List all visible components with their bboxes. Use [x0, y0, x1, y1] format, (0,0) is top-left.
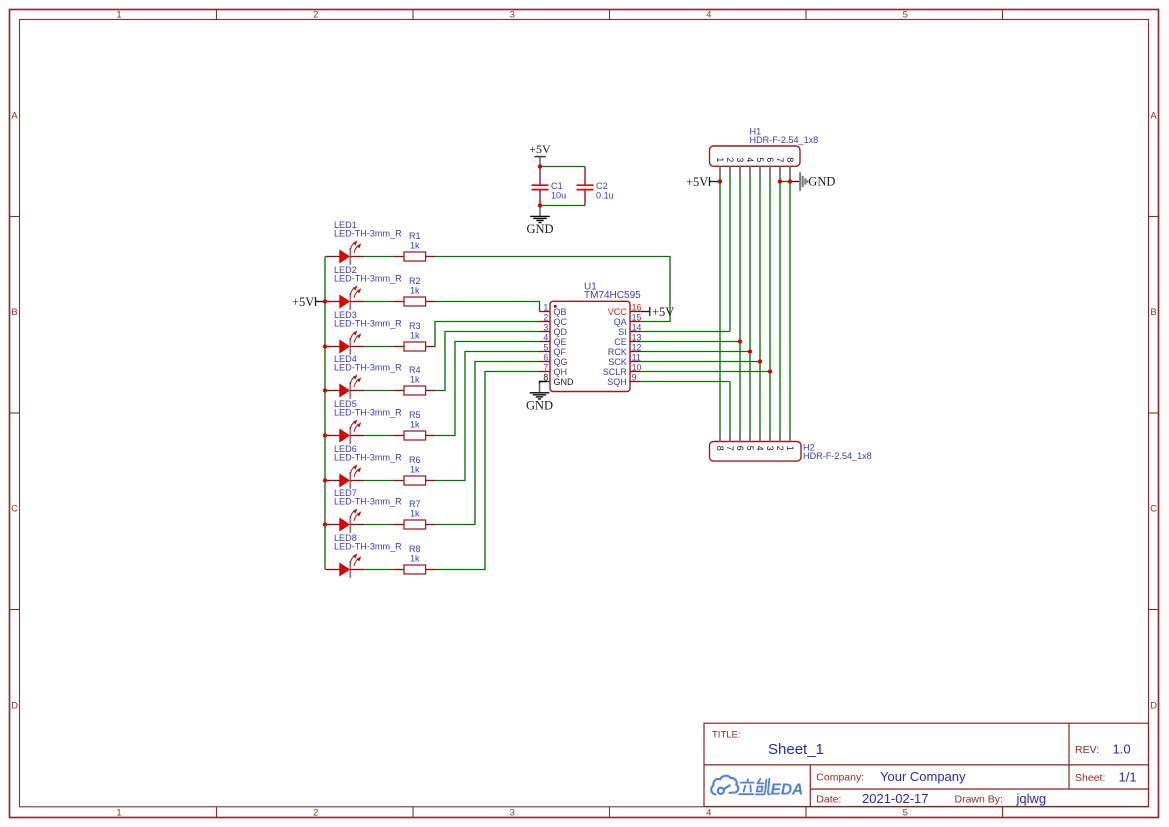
svg-text:QA: QA	[614, 317, 627, 327]
junction RCK column	[748, 349, 752, 353]
svg-text:SQH: SQH	[607, 377, 627, 387]
resistor R6 1k	[394, 476, 436, 485]
svg-text:LED-TH-3mm_R: LED-TH-3mm_R	[334, 408, 402, 418]
svg-text:LED-TH-3mm_R: LED-TH-3mm_R	[334, 453, 402, 463]
wire net RCK to column x750	[641, 351, 751, 353]
svg-text:QF: QF	[554, 347, 567, 357]
wire net R8 out to U1 pin7	[436, 372, 540, 570]
connector H1 HDR-F-2.54_1x8 body	[710, 146, 801, 166]
U1 pin1 orientation dot	[554, 305, 557, 308]
netport GND at H1 (sideways ground)	[800, 172, 807, 191]
H1 pin 1 stub	[719, 166, 721, 177]
title block divider under company row	[810, 788, 1148, 790]
svg-text:1k: 1k	[410, 465, 420, 475]
H2 pin 5 stub	[749, 432, 751, 441]
svg-text:REV:: REV:	[1075, 744, 1099, 756]
ground symbol below C1	[530, 216, 550, 222]
svg-text:6: 6	[543, 353, 548, 363]
svg-text:1k: 1k	[410, 286, 420, 296]
svg-text:6: 6	[765, 157, 775, 162]
H1 pin 2 stub	[729, 166, 731, 177]
svg-text:5: 5	[903, 10, 908, 21]
svg-text:Drawn By:: Drawn By:	[955, 794, 1003, 806]
svg-text:D: D	[11, 700, 18, 711]
svg-text:1k: 1k	[410, 554, 420, 564]
wire +5V net: C1 top to C2 top	[540, 166, 585, 168]
wire net R5 out to U1 pin4	[436, 342, 540, 436]
svg-text:SI: SI	[618, 327, 627, 337]
row tick 3 left	[10, 609, 20, 611]
wire column x790 (H1.8 to H2.1)	[789, 177, 791, 433]
svg-text:A: A	[1150, 110, 1157, 121]
svg-text:4: 4	[745, 157, 755, 162]
svg-text:4: 4	[755, 446, 765, 451]
svg-text:C: C	[1150, 504, 1157, 515]
H1 pin 5 stub	[759, 166, 761, 177]
wire column x780 (H1.7 to H2.2)	[779, 177, 781, 433]
logo text 立创 (glyph strokes)	[739, 779, 770, 795]
wire +5V port to H1 pin1 column	[710, 181, 720, 183]
svg-text:7: 7	[543, 363, 548, 373]
svg-text:1k: 1k	[410, 241, 420, 251]
H2 pin 3 stub	[769, 432, 771, 441]
U1 pin 12 stub	[630, 351, 641, 353]
wire column x740 (H1.3 to H2.6)	[739, 177, 741, 433]
LED LED3 (LED-TH-3mm_R)	[325, 331, 364, 355]
svg-text:D: D	[1150, 700, 1157, 711]
junction GND at H1 pin7	[778, 179, 782, 183]
wire net SCK to column x760	[641, 361, 761, 363]
junction +5V bus at LED4 row	[323, 388, 327, 392]
H1 pin 8 stub	[789, 166, 791, 177]
svg-text:1k: 1k	[410, 420, 420, 430]
junction +5V bus at LED6 row	[323, 478, 327, 482]
ground symbol below U1	[530, 393, 550, 399]
resistor R7 1k	[394, 520, 436, 529]
svg-text:7: 7	[775, 157, 785, 162]
svg-text:5: 5	[755, 157, 765, 162]
svg-text:QC: QC	[554, 317, 568, 327]
U1 pin 11 stub	[630, 361, 641, 363]
resistor R5 1k	[394, 431, 436, 440]
svg-text:4: 4	[706, 10, 711, 21]
svg-text:1: 1	[785, 446, 795, 451]
junction CE column	[738, 339, 742, 343]
wire net SQH to column x730	[641, 381, 731, 383]
column tick 5 top	[1002, 10, 1004, 20]
H2 pin 7 stub	[729, 432, 731, 441]
svg-text:16: 16	[632, 303, 642, 313]
junction GND at H1 pin8	[788, 179, 792, 183]
svg-text:TITLE:: TITLE:	[712, 730, 741, 741]
wire net R1 out to U1 pin15 QA	[436, 257, 670, 322]
title block divider under title row	[704, 764, 1149, 766]
LED LED2 (LED-TH-3mm_R)	[325, 286, 364, 310]
row tick 2 left	[10, 412, 20, 414]
H2 pin 8 stub	[719, 432, 721, 441]
svg-text:2: 2	[725, 157, 735, 162]
wire +5V bus vertical (LED anodes)	[324, 257, 326, 570]
svg-text:4: 4	[706, 808, 711, 819]
svg-text:1/1: 1/1	[1119, 769, 1137, 784]
op IC U1 TM74HC595 body	[550, 301, 630, 391]
wire LED8 cathode to R8	[364, 569, 394, 571]
U1 pin 6 stub	[540, 361, 551, 363]
wire column x730 lower (SQH-H2.7)	[729, 382, 731, 433]
svg-text:1k: 1k	[410, 331, 420, 341]
netport +5V at H1 pin1	[686, 175, 710, 189]
svg-text:QD: QD	[554, 327, 568, 337]
junction +5V bus at LED3 row	[323, 344, 327, 348]
svg-text:C: C	[11, 504, 18, 515]
svg-text:CE: CE	[614, 337, 627, 347]
svg-text:15: 15	[632, 313, 642, 323]
svg-text:3: 3	[543, 323, 548, 333]
U1 pin 10 stub	[630, 371, 641, 373]
svg-text:1k: 1k	[410, 375, 420, 385]
svg-text:1: 1	[116, 10, 121, 21]
wire LED2 cathode to R2	[364, 301, 394, 303]
wire column x720 (H1.1 to H2.8)	[719, 177, 721, 433]
svg-text:1: 1	[543, 303, 548, 313]
svg-text:2: 2	[543, 313, 548, 323]
U1 pin 3 stub	[540, 331, 551, 333]
svg-text:3: 3	[510, 808, 515, 819]
junction +5V bus at LED2 row	[323, 299, 327, 303]
wire net R4 out to U1 pin3	[436, 332, 540, 391]
svg-text:jqlwg: jqlwg	[1016, 791, 1047, 806]
netport +5V feeding LED bus	[292, 295, 316, 309]
resistor R8 1k	[394, 565, 436, 574]
svg-text:1k: 1k	[410, 509, 420, 519]
svg-text:LED-TH-3mm_R: LED-TH-3mm_R	[334, 363, 402, 373]
column tick 1 top	[216, 10, 218, 20]
resistor R4 1k	[394, 386, 436, 395]
svg-text:SCK: SCK	[608, 357, 627, 367]
wire net R3 out to U1 pin2	[435, 322, 540, 347]
wire LED4 cathode to R4	[364, 390, 394, 392]
wire U1 GND pin to ground	[540, 382, 548, 385]
wire net R2 out to U1 pin1 QB	[436, 302, 540, 312]
svg-text:HDR-F-2.54_1x8: HDR-F-2.54_1x8	[750, 135, 819, 145]
connector H2 HDR-F-2.54_1x8 body	[710, 442, 802, 462]
svg-text:10: 10	[632, 363, 642, 373]
LED LED6 (LED-TH-3mm_R)	[325, 465, 364, 489]
H2 pin 1 stub	[789, 432, 791, 441]
wire column x730 upper (H1.2-SI)	[729, 177, 731, 332]
LED LED1 (LED-TH-3mm_R)	[325, 241, 364, 265]
U1 pin 4 stub	[540, 341, 551, 343]
wire LED5 cathode to R5	[364, 435, 394, 437]
svg-text:QG: QG	[554, 357, 568, 367]
power flag +5V (top)	[529, 142, 551, 166]
wire column x760 (H1.5 to H2.4)	[759, 177, 761, 433]
svg-text:7: 7	[725, 446, 735, 451]
row tick 1 left	[10, 216, 20, 218]
wire LED6 cathode to R6	[364, 480, 394, 482]
svg-text:8: 8	[715, 446, 725, 451]
svg-text:QB: QB	[554, 307, 567, 317]
netport +5V at U1 VCC	[650, 305, 675, 319]
svg-text:13: 13	[632, 333, 642, 343]
svg-text:GND: GND	[526, 399, 553, 413]
svg-text:LED-TH-3mm_R: LED-TH-3mm_R	[334, 229, 402, 239]
svg-text:GND: GND	[526, 222, 553, 236]
H1 pin 4 stub	[749, 166, 751, 177]
svg-text:+5V: +5V	[686, 175, 708, 189]
wire column x750 (H1.4 to H2.5)	[749, 177, 751, 433]
svg-text:2021-02-17: 2021-02-17	[862, 791, 929, 806]
svg-text:EDA: EDA	[771, 782, 804, 799]
wire U1 VCC to +5V port	[641, 311, 650, 313]
svg-text:SCLR: SCLR	[603, 367, 628, 377]
svg-text:3: 3	[510, 10, 515, 21]
U1 pin 7 stub	[540, 371, 551, 373]
resistor R2 1k	[394, 297, 436, 306]
title block frame	[704, 723, 1149, 806]
wire net SI to column x730	[641, 331, 731, 333]
svg-text:9: 9	[632, 373, 637, 383]
column tick 4 top	[805, 10, 807, 20]
svg-text:+5V: +5V	[529, 142, 551, 156]
junction SCK column	[758, 359, 762, 363]
svg-text:5: 5	[903, 808, 908, 819]
svg-text:Sheet:: Sheet:	[1075, 772, 1105, 784]
svg-text:LED-TH-3mm_R: LED-TH-3mm_R	[334, 542, 402, 552]
LED LED7 (LED-TH-3mm_R)	[325, 509, 364, 533]
column tick 3 top	[609, 10, 611, 20]
svg-text:GND: GND	[554, 377, 575, 387]
svg-text:LED-TH-3mm_R: LED-TH-3mm_R	[334, 319, 402, 329]
wire GND stem below C1	[539, 206, 541, 217]
svg-text:3: 3	[735, 157, 745, 162]
title block logo cell divider	[809, 765, 811, 807]
svg-text:14: 14	[632, 323, 642, 333]
U1 pin 9 stub	[630, 381, 641, 383]
svg-text:2: 2	[775, 446, 785, 451]
svg-text:5: 5	[543, 343, 548, 353]
wire net R6 out to U1 pin5	[436, 352, 540, 481]
column tick 4 bottom	[805, 807, 807, 818]
U1 pin 1 stub	[540, 311, 551, 313]
svg-text:1: 1	[715, 157, 725, 162]
svg-text:2: 2	[313, 10, 318, 21]
svg-text:GND: GND	[808, 175, 835, 189]
svg-text:8: 8	[785, 157, 795, 162]
wire LED3 cathode to R3	[364, 346, 394, 348]
H1 pin 6 stub	[769, 166, 771, 177]
logo LCEDA cloud icon	[711, 776, 738, 795]
svg-text:Date:: Date:	[816, 794, 841, 806]
svg-text:RCK: RCK	[608, 347, 627, 357]
column tick 1 bottom	[216, 807, 218, 818]
junction +5V at H1 pin1	[718, 179, 722, 183]
svg-text:2: 2	[313, 808, 318, 819]
wire net R7 out to U1 pin6	[436, 362, 540, 525]
column tick 3 bottom	[609, 807, 611, 818]
svg-text:LED-TH-3mm_R: LED-TH-3mm_R	[334, 274, 402, 284]
svg-text:4: 4	[543, 333, 548, 343]
LED LED4 (LED-TH-3mm_R)	[325, 375, 364, 399]
H2 pin 6 stub	[739, 432, 741, 441]
svg-text:+5V: +5V	[292, 295, 314, 309]
U1 pin 8 stub	[540, 381, 551, 383]
wire H1 pin8 to GND port	[790, 181, 799, 183]
svg-text:12: 12	[632, 343, 642, 353]
U1 pin 5 stub	[540, 351, 551, 353]
svg-text:1: 1	[116, 808, 121, 819]
svg-text:TM74HC595: TM74HC595	[584, 290, 641, 301]
wire LED1 cathode to R1	[364, 256, 394, 258]
H1 pin 7 stub	[779, 166, 781, 177]
capacitor C1 10u	[532, 167, 549, 206]
U1 pin 13 stub	[630, 341, 641, 343]
wire net CE to column x740	[641, 341, 741, 343]
svg-text:A: A	[11, 110, 18, 121]
svg-text:B: B	[11, 307, 17, 318]
capacitor C2 0.1u	[577, 167, 594, 206]
svg-text:Company:: Company:	[816, 772, 864, 784]
wire LED7 cathode to R7	[364, 524, 394, 526]
svg-text:VCC: VCC	[608, 307, 628, 317]
svg-text:Sheet_1: Sheet_1	[768, 741, 824, 758]
row tick 3 right	[1149, 609, 1159, 611]
H1 pin 3 stub	[739, 166, 741, 177]
svg-text:5: 5	[745, 446, 755, 451]
column tick 5 bottom	[1002, 807, 1004, 818]
wire GND link H1 pin7 to pin8	[780, 181, 790, 183]
svg-text:6: 6	[735, 446, 745, 451]
resistor R1 1k	[394, 252, 436, 261]
junction GND at C1 bottom	[538, 203, 542, 207]
svg-text:1.0: 1.0	[1113, 741, 1131, 756]
svg-text:0.1u: 0.1u	[596, 190, 614, 200]
svg-text:11: 11	[632, 353, 641, 363]
junction +5V at C1 top	[538, 164, 542, 168]
svg-text:LED-TH-3mm_R: LED-TH-3mm_R	[334, 497, 402, 507]
svg-text:3: 3	[765, 446, 775, 451]
svg-text:QH: QH	[554, 367, 568, 377]
U1 pin 14 stub	[630, 331, 641, 333]
svg-text:HDR-F-2.54_1x8: HDR-F-2.54_1x8	[803, 451, 872, 461]
H2 pin 4 stub	[759, 432, 761, 441]
wire GND net: C1 bottom to C2 bottom	[540, 205, 585, 207]
row tick 1 right	[1149, 216, 1159, 218]
title block rev column divider	[1068, 723, 1070, 789]
U1 pin 16 stub	[630, 311, 641, 313]
wire +5V port to bus	[316, 301, 325, 303]
svg-text:10u: 10u	[551, 190, 566, 200]
junction +5V bus at LED7 row	[323, 522, 327, 526]
LED LED8 (LED-TH-3mm_R)	[325, 554, 364, 578]
wire column x770 (H1.6 to H2.3)	[769, 177, 771, 433]
resistor R3 1k	[394, 342, 436, 351]
svg-text:QE: QE	[554, 337, 567, 347]
U1 pin 2 stub	[540, 321, 551, 323]
svg-text:+5V: +5V	[652, 305, 674, 319]
column tick 2 bottom	[412, 807, 414, 818]
H2 pin 2 stub	[779, 432, 781, 441]
row tick 2 right	[1149, 412, 1159, 414]
U1 pin 15 stub	[630, 321, 641, 323]
svg-text:Your Company: Your Company	[880, 769, 966, 784]
column tick 2 top	[412, 10, 414, 20]
LED LED5 (LED-TH-3mm_R)	[325, 420, 364, 444]
wire net SCLR to column x770	[641, 371, 771, 373]
svg-text:B: B	[1150, 307, 1156, 318]
junction SCLR column	[768, 369, 772, 373]
junction +5V bus at LED5 row	[323, 433, 327, 437]
